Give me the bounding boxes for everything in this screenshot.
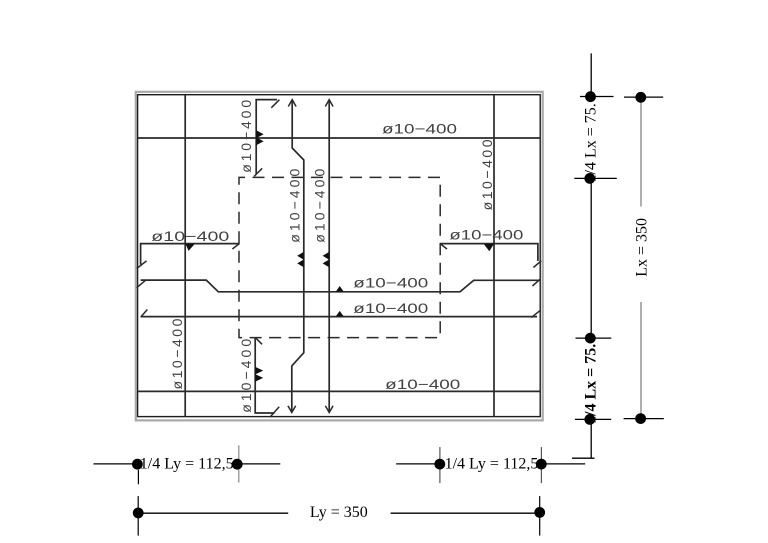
arrowheads on straight bar bbox=[323, 252, 330, 260]
white patch text zone 1 bbox=[584, 101, 598, 181]
arrowhead on bar A bbox=[336, 286, 344, 292]
tick bottom hooked bar upper end bbox=[256, 338, 263, 345]
rebar straight horizontal bar B bbox=[141, 316, 537, 318]
dimension node circles row2 bbox=[133, 508, 144, 519]
white patch text zone 2 bbox=[584, 342, 598, 420]
svg-text:ø10−400: ø10−400 bbox=[151, 228, 229, 244]
tick bar B left end bbox=[141, 310, 148, 318]
rebar middle cranked horizontal bar A bbox=[141, 280, 540, 292]
svg-text:ø10−400: ø10−400 bbox=[353, 275, 428, 291]
dimension node circles row1 right bbox=[434, 459, 445, 470]
rebar top long bar bbox=[138, 137, 541, 139]
svg-text:ø10−400: ø10−400 bbox=[238, 339, 254, 413]
tick bar A right end bbox=[532, 279, 540, 286]
svg-text:ø10−400: ø10−400 bbox=[382, 121, 457, 137]
svg-text:1/4 Lx = 75.: 1/4 Lx = 75. bbox=[583, 344, 600, 424]
svg-text:1/4 Ly = 112,5: 1/4 Ly = 112,5 bbox=[140, 456, 234, 473]
column strip dashed outline bbox=[239, 177, 440, 337]
dimension node circles line 2 bbox=[635, 92, 646, 103]
dimension row 1/4 Ly right line bbox=[396, 463, 585, 465]
dimension line 1/4 Lx right inner bbox=[590, 53, 592, 458]
dimension row Ly = 350 right line bbox=[391, 512, 536, 514]
tick short right bar hook end bbox=[533, 261, 541, 268]
svg-text:ø10−400: ø10−400 bbox=[311, 169, 327, 243]
chevron top of straight bar bbox=[325, 100, 333, 107]
dimension row Ly = 350 left line bbox=[138, 512, 288, 514]
svg-text:1/4 Ly = 112,5: 1/4 Ly = 112,5 bbox=[445, 456, 539, 473]
rebar bottom hooked bar bbox=[255, 338, 274, 414]
svg-text:ø10−400: ø10−400 bbox=[479, 139, 495, 210]
arrowheads on cranked bar bbox=[297, 252, 304, 260]
svg-text:ø10−400: ø10−400 bbox=[238, 100, 254, 173]
rebar short left support bar bbox=[141, 244, 240, 265]
dimension row 1/4 Ly left line bbox=[94, 463, 281, 465]
dimension node circles row1 left bbox=[132, 459, 143, 470]
node ticks line 2 bbox=[624, 96, 663, 98]
svg-text:Ly = 350: Ly = 350 bbox=[310, 504, 368, 521]
chevron bottom of cranked bar bbox=[288, 406, 296, 413]
tick short left bar right end bbox=[232, 243, 239, 249]
tick bottom hooked bar lower end bbox=[270, 407, 279, 417]
gray tick through circle row1 left bbox=[238, 445, 240, 482]
svg-text:ø10−400: ø10−400 bbox=[169, 318, 185, 389]
svg-text:Lx = 350: Lx = 350 bbox=[633, 218, 650, 277]
tick bar A left end bbox=[137, 280, 146, 288]
white patch row1 left bbox=[139, 456, 236, 472]
tick top hooked bar lower end bbox=[254, 168, 262, 176]
rebar top hooked bar bbox=[256, 100, 277, 175]
tick short left bar hook end bbox=[137, 261, 147, 269]
arrowheads on top hooked bar bbox=[256, 130, 263, 138]
chevron bottom of straight bar bbox=[325, 406, 333, 413]
tick through circle row2 right bbox=[539, 496, 541, 535]
tick bar B right end bbox=[531, 310, 540, 317]
dimension line Lx right outer lower segment bbox=[640, 302, 642, 419]
arrowhead on short right bar bbox=[484, 244, 494, 251]
tick through circle row2 left bbox=[137, 496, 139, 535]
rebar middle straight vertical bar bbox=[328, 100, 330, 413]
dimension line Lx right outer upper segment bbox=[640, 97, 642, 206]
white patch row1 right bbox=[444, 456, 540, 472]
svg-text:ø10−400: ø10−400 bbox=[287, 169, 303, 243]
tick top hooked bar upper end bbox=[271, 100, 279, 108]
rebar left vertical bar bbox=[184, 95, 186, 417]
svg-text:1/4 Lx = 75.: 1/4 Lx = 75. bbox=[583, 103, 600, 182]
node ticks line 1 bbox=[580, 96, 614, 98]
chevron top of cranked bar bbox=[288, 100, 296, 107]
tick below circle row1 far left bbox=[137, 470, 139, 485]
svg-text:ø10−400: ø10−400 bbox=[385, 376, 460, 392]
arrowheads on bottom hooked bar bbox=[255, 367, 263, 375]
tick through circle row1 right b bbox=[540, 447, 542, 483]
rebar right vertical bar bbox=[493, 95, 495, 417]
svg-text:ø10−400: ø10−400 bbox=[449, 227, 523, 243]
dimension line 1 bottom tick bbox=[572, 457, 595, 459]
dimension node circles line 1 bbox=[585, 91, 596, 102]
rebar short right support bar bbox=[440, 244, 538, 261]
tick through circle row1 right a bbox=[439, 447, 441, 483]
tick short right bar left end bbox=[440, 243, 447, 249]
rebar middle cranked vertical bar bbox=[292, 100, 304, 413]
slab outer edge bbox=[136, 92, 543, 421]
svg-text:ø10−400: ø10−400 bbox=[353, 300, 428, 316]
slab inner edge bbox=[138, 95, 541, 417]
arrowhead on bar B bbox=[336, 311, 344, 317]
rebar bottom long bar bbox=[138, 390, 541, 392]
arrowhead on short left bar bbox=[185, 244, 195, 251]
